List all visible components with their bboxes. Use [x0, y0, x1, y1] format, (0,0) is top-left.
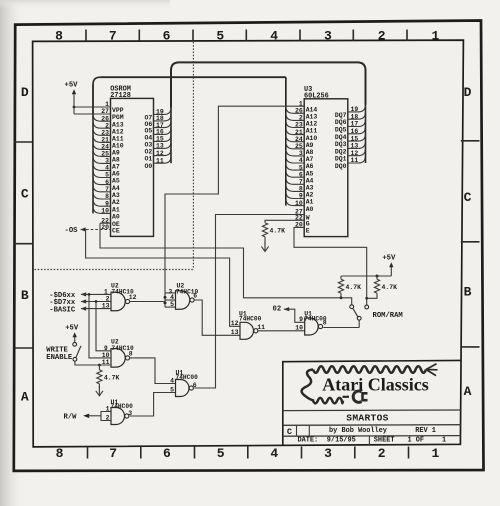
OSROM pin 5 A5	[93, 170, 120, 184]
U3 pin 16 DQ4	[335, 127, 366, 141]
svg-text:A9: A9	[112, 150, 120, 157]
svg-text:4: 4	[270, 29, 278, 44]
svg-text:12: 12	[129, 294, 137, 301]
dotted partition line horizontal	[35, 269, 194, 271]
border tick right 2	[461, 241, 480, 243]
svg-text:DQ0: DQ0	[335, 163, 347, 170]
border tick bottom 7	[408, 447, 410, 459]
svg-text:1: 1	[442, 437, 446, 445]
node WRITE ENABLE label	[46, 347, 73, 362]
svg-text:D: D	[21, 85, 29, 100]
wire address bus horizontal ROM to U3	[100, 76, 285, 78]
svg-text:A: A	[21, 390, 29, 405]
wire -OS dashed to OSROM CE	[82, 229, 111, 231]
wire U3 pin 22 G to resistor	[265, 220, 304, 223]
svg-text:5: 5	[216, 29, 224, 44]
OSROM pin 10 A0	[93, 206, 120, 220]
svg-text:CE: CE	[112, 228, 120, 235]
wire -$D7xx branch to U2c pin 9	[96, 302, 111, 351]
border tick bottom 6	[354, 447, 356, 459]
svg-text:C: C	[287, 427, 292, 437]
svg-text:4: 4	[270, 446, 278, 461]
wire +5V rail to pullup resistors	[341, 275, 391, 280]
border tick right 3	[461, 346, 480, 348]
svg-text:C: C	[464, 190, 472, 205]
U3 pin 3 A7	[286, 149, 314, 163]
op-amp gate U1b 74HC00 NAND (pins 4,5 -> 6)	[170, 369, 198, 396]
svg-text:+5V: +5V	[382, 255, 396, 263]
border tick left 3	[14, 347, 33, 349]
wire U1d output 8 to switch pole	[323, 327, 359, 329]
OSROM pin 9 A1	[93, 199, 120, 213]
border tick top 1	[85, 30, 87, 42]
svg-text:8: 8	[55, 29, 63, 44]
border tick top 2	[138, 30, 140, 42]
svg-text:1 OF: 1 OF	[408, 437, 425, 445]
svg-text:1: 1	[431, 446, 439, 461]
border tick right 1	[461, 140, 480, 142]
svg-text:13: 13	[231, 329, 239, 336]
border tick top 4	[245, 30, 247, 42]
wire -$D6xx branch to U2c pin 10	[89, 294, 111, 358]
svg-text:DQ6: DQ6	[335, 119, 347, 126]
svg-text:A4: A4	[306, 177, 314, 184]
svg-text:12: 12	[231, 320, 239, 327]
svg-text:4: 4	[170, 377, 174, 384]
U3 pin 1 A14	[299, 100, 318, 113]
OSROM pin 13 O2	[144, 142, 171, 156]
svg-text:6: 6	[163, 446, 171, 461]
svg-text:9/15/95: 9/15/95	[327, 437, 356, 445]
wire address bus U3 side vertical	[285, 77, 287, 106]
border tick bottom 5	[301, 447, 303, 459]
wire A14 net junction verticals to U2 pins 3,4,5	[164, 293, 176, 307]
svg-text:2: 2	[378, 446, 386, 461]
svg-text:A1: A1	[112, 206, 120, 213]
svg-text:O1: O1	[144, 156, 152, 163]
OSROM pin 17 O5	[144, 121, 171, 135]
svg-text:4: 4	[170, 294, 174, 301]
U3 pin 11 DQ0	[335, 156, 366, 170]
svg-text:PGM: PGM	[112, 114, 124, 121]
svg-text:E: E	[306, 228, 310, 235]
U3 pin 19 DQ7	[335, 105, 366, 119]
OSROM pin 24 A9	[93, 142, 120, 156]
U3 pin 4 A6	[286, 156, 314, 170]
svg-text:A5: A5	[112, 178, 120, 185]
U3 pin 25 A8	[286, 142, 314, 156]
OSROM pin 22 OE	[100, 217, 120, 228]
svg-text:A4: A4	[112, 185, 120, 192]
wire switch to U2c pin 11	[75, 361, 111, 366]
wire address bus ROM side solid line	[92, 85, 94, 214]
U3 pin 15 DQ3	[335, 134, 366, 148]
OSROM pin 19 O7	[144, 108, 171, 122]
svg-text:R/W: R/W	[64, 414, 78, 422]
svg-text:DQ1: DQ1	[335, 156, 347, 163]
svg-text:10: 10	[295, 325, 303, 332]
svg-text:5: 5	[217, 446, 225, 461]
svg-text:7: 7	[109, 446, 117, 461]
U3 pin 9 A1	[286, 191, 314, 205]
U3 pin 21 A10	[286, 128, 318, 142]
title block row line below SMARTOS	[283, 424, 461, 427]
svg-text:A10: A10	[306, 135, 318, 142]
svg-text:8: 8	[56, 446, 64, 461]
OSROM pin 2 A12	[93, 121, 124, 135]
svg-text:-OS: -OS	[65, 227, 79, 235]
U3 pin 8 A2	[286, 184, 314, 198]
svg-text:G: G	[306, 221, 310, 228]
node -$D6xx signal	[49, 292, 111, 300]
U3 pin 20 E	[295, 222, 310, 235]
svg-text:A11: A11	[306, 128, 318, 135]
title block divider C box	[296, 425, 298, 436]
OSROM pin 12 O1	[144, 149, 171, 163]
svg-text:SMARTOS: SMARTOS	[346, 412, 388, 423]
switch WRITE ENABLE SPST	[73, 342, 81, 361]
U3 pin 22 G	[295, 215, 310, 228]
svg-text:27128: 27128	[110, 92, 131, 100]
node -$D7xx signal	[49, 299, 111, 307]
title block row line above SMARTOS	[283, 409, 461, 412]
svg-text:1: 1	[431, 29, 439, 44]
svg-text:DQ2: DQ2	[335, 148, 347, 155]
U3 pin 7 A3	[286, 177, 314, 191]
OSROM pin 8 A2	[93, 192, 120, 206]
wire U1a output 11 to U1d pin 10	[258, 330, 304, 332]
U3 pin 10 A0	[286, 199, 314, 213]
border tick left 1	[14, 141, 33, 143]
svg-text:4.7K: 4.7K	[270, 228, 286, 235]
svg-text:A12: A12	[306, 121, 318, 128]
op-amp gate U2b 74HC10 NAND (pins 3,4,5 -> 6)	[169, 282, 199, 309]
svg-text:by Bob Woolley: by Bob Woolley	[329, 427, 387, 435]
U3 pin 6 A4	[286, 170, 314, 184]
OSROM pin 3 A7	[93, 156, 120, 170]
svg-text:O3: O3	[144, 141, 152, 148]
OSROM pin 1 VPP	[105, 101, 124, 114]
svg-text:O0: O0	[144, 163, 152, 170]
svg-text:A12: A12	[112, 128, 124, 135]
OSROM pin 20 CE	[101, 224, 120, 235]
logo DC power plug glyph	[343, 391, 368, 402]
svg-text:A3: A3	[306, 185, 314, 192]
ground arrow at WRITE ENABLE resistor	[96, 384, 103, 396]
U3 pin 17 DQ5	[335, 119, 366, 133]
logo squiggle tail fork	[426, 364, 438, 376]
OSROM pin 27 PGM	[101, 108, 123, 121]
border tick top 3	[192, 30, 194, 42]
svg-text:D: D	[464, 85, 472, 100]
svg-text:O2: O2	[144, 148, 152, 155]
svg-text:74HC00: 74HC00	[176, 374, 199, 381]
wire address bus ROM side vertical	[93, 77, 100, 114]
U3 pin 5 A5	[286, 163, 314, 177]
border tick bottom 2	[140, 447, 142, 459]
power +5V symbol at ROM/RAM pullups	[382, 255, 396, 276]
svg-text:11: 11	[257, 324, 265, 331]
wire E net (U3 pin 20 to ROM/RAM switch right throw)	[294, 227, 367, 305]
svg-text:B: B	[21, 288, 29, 303]
wire data bus top (ROM outputs to U3 DQ)	[171, 62, 366, 107]
border tick bottom 4	[247, 447, 249, 459]
wire data bus U3 side solid line	[365, 71, 367, 164]
node R/W signal with arrow	[64, 414, 102, 422]
title block divider date/sheet	[368, 436, 370, 445]
wire U1c output 3 to U1b pin 5	[130, 393, 176, 417]
OSROM pin 4 A6	[93, 163, 120, 177]
svg-text:6: 6	[163, 29, 171, 44]
switch ROM/RAM SPDT	[350, 305, 369, 328]
svg-text:2: 2	[378, 29, 386, 44]
logo squiggle left S	[302, 370, 314, 401]
op-amp gate U1a 74HC00 NAND (pins 12,13 -> 11)	[231, 311, 265, 340]
wire W net (U1b output to U3 pin 27)	[194, 215, 304, 389]
svg-text:7: 7	[109, 29, 117, 44]
op-amp gate U2c 74HC10 NAND (pins 9,10,11 -> 8)	[102, 339, 134, 367]
svg-text:6: 6	[193, 382, 197, 389]
svg-text:DQ4: DQ4	[335, 134, 347, 141]
op-amp gate U1c 74HC00 NAND (pins 1,2 -> 3)	[106, 399, 133, 424]
svg-text:A6: A6	[306, 163, 314, 170]
OSROM pin 11 O0	[144, 156, 171, 170]
OSROM pin 25 A8	[93, 149, 120, 163]
border tick top 5	[299, 30, 301, 42]
svg-text:+5V: +5V	[65, 82, 79, 90]
U3 pin 27 W	[295, 209, 310, 222]
svg-text:SHEET: SHEET	[374, 437, 395, 445]
inner border frame	[33, 40, 464, 447]
svg-text:DQ3: DQ3	[335, 141, 347, 148]
border tick top 6	[352, 30, 354, 42]
logo Atari Classics squiggle top	[313, 366, 426, 373]
svg-text:ROM/RAM: ROM/RAM	[373, 312, 403, 320]
wire OSROM OE net to ROM/RAM switch	[100, 223, 352, 305]
node -BASIC signal	[49, 306, 111, 314]
U3 pin 13 DQ2	[335, 141, 366, 155]
U3 pin 23 A11	[286, 120, 318, 134]
svg-text:A7: A7	[112, 164, 120, 171]
svg-text:A7: A7	[306, 156, 314, 163]
border tick top 7	[406, 30, 408, 42]
op-amp gate U2a 74HC10 NAND (pins 1,2,13 -> 12)	[102, 282, 137, 310]
border tick bottom 1	[87, 447, 89, 459]
node 02 clock signal	[273, 306, 290, 314]
OSROM pin 16 O4	[144, 128, 171, 142]
wire U2a output 12 to junction	[130, 301, 165, 303]
U3 pin 18 DQ6	[335, 112, 366, 126]
resistor 4.7K pullup right (E net)	[374, 279, 397, 293]
IC U3 60L256 SRAM body	[304, 99, 348, 237]
svg-text:A1: A1	[306, 199, 314, 206]
svg-text:8: 8	[323, 320, 327, 327]
svg-text:6: 6	[193, 293, 197, 300]
node -OS signal label	[65, 227, 86, 235]
svg-text:A0: A0	[306, 206, 314, 213]
U3 pin 12 DQ1	[335, 148, 366, 162]
wire +5V to OSROM pin 1 VPP	[74, 106, 111, 108]
svg-text:A11: A11	[112, 136, 124, 143]
op-amp gate U1d 74HC00 NAND (pins 9,10 -> 8)	[295, 310, 327, 335]
svg-text:4.7K: 4.7K	[104, 375, 120, 382]
border tick bottom 3	[194, 447, 196, 459]
U3 pin 26 A13	[286, 106, 318, 120]
wire A14 net (U2 gate junction up to U3 pin 1)	[165, 106, 304, 293]
svg-text:DATE:: DATE:	[298, 437, 319, 445]
svg-text:60L256: 60L256	[304, 93, 329, 101]
svg-text:ENABLE: ENABLE	[46, 354, 73, 362]
wire 02 to U1d pin 9	[284, 309, 305, 322]
svg-text:A14: A14	[306, 106, 318, 113]
title block frame	[283, 360, 461, 444]
border tick left 2	[14, 243, 33, 245]
resistor 4.7K at U3 G	[262, 223, 285, 237]
OSROM pin 7 A3	[93, 185, 120, 199]
svg-text:8: 8	[129, 351, 133, 358]
svg-text:REV 1: REV 1	[415, 427, 436, 435]
logo squiggle bottom	[313, 398, 343, 403]
svg-text:4.7K: 4.7K	[346, 284, 362, 291]
svg-text:A6: A6	[112, 171, 120, 178]
svg-text:A2: A2	[112, 199, 120, 206]
svg-text:Atari Classics: Atari Classics	[322, 374, 429, 394]
IC OSROM 27128 EPROM body	[111, 98, 154, 236]
svg-text:4.7K: 4.7K	[382, 284, 398, 291]
power +5V symbol at OSROM	[65, 82, 79, 114]
resistor 4.7K pulldown at WRITE ENABLE	[97, 365, 120, 384]
svg-text:02: 02	[273, 306, 282, 314]
svg-text:VPP: VPP	[112, 107, 124, 114]
wire data bus ROM side solid line	[170, 71, 172, 164]
svg-text:DQ7: DQ7	[335, 112, 347, 119]
dotted partition line vertical	[192, 42, 194, 270]
wire U2c output 8 to U1b pin 4	[130, 358, 176, 384]
OSROM pin 23 A11	[93, 128, 124, 142]
svg-text:A8: A8	[112, 157, 120, 164]
svg-text:C: C	[21, 187, 29, 202]
wire +5V to OSROM pin 27 PGM	[74, 113, 111, 115]
power +5V symbol at WRITE ENABLE	[65, 324, 79, 342]
svg-text:3: 3	[324, 446, 332, 461]
svg-text:5: 5	[170, 301, 174, 308]
svg-text:A13: A13	[112, 121, 124, 128]
svg-text:A10: A10	[112, 143, 124, 150]
U3 pin 2 A12	[286, 113, 318, 127]
U3 pin 24 A9	[286, 135, 314, 149]
svg-text:A13: A13	[306, 114, 318, 121]
OSROM pin 6 A4	[93, 178, 120, 192]
svg-text:DQ5: DQ5	[335, 127, 347, 134]
title block divider small box	[308, 425, 310, 436]
OSROM pin 15 O3	[144, 135, 171, 149]
svg-text:74HC00: 74HC00	[239, 315, 262, 322]
svg-text:+5V: +5V	[65, 324, 79, 332]
wire R/W to U1c pins 1 and 2	[101, 412, 111, 421]
wire U2b output 6 to U1a pin 13	[194, 300, 240, 335]
svg-text:A5: A5	[306, 170, 314, 177]
svg-text:A0: A0	[112, 214, 120, 221]
resistor 4.7K pullup left (OE net)	[338, 279, 361, 293]
svg-text:B: B	[464, 284, 472, 299]
OSROM pin 26 A13	[93, 114, 124, 128]
svg-text:A2: A2	[306, 192, 314, 199]
svg-text:O4: O4	[144, 134, 152, 141]
OSROM pin 18 O6	[144, 114, 171, 128]
svg-text:A3: A3	[112, 192, 120, 199]
title block row line below byline	[283, 435, 461, 438]
wire -OS net down to U1 pin 12	[86, 230, 240, 327]
svg-text:A8: A8	[306, 149, 314, 156]
ground arrow at U3 G resistor	[261, 237, 268, 252]
wire address bus U3 side solid line	[285, 77, 287, 205]
svg-text:-BASIC: -BASIC	[49, 306, 76, 314]
svg-text:A9: A9	[306, 142, 314, 149]
svg-text:A: A	[464, 384, 472, 399]
wire right pullup to E net	[367, 293, 377, 298]
svg-text:3: 3	[324, 29, 332, 44]
OSROM pin 21 A10	[93, 135, 124, 149]
